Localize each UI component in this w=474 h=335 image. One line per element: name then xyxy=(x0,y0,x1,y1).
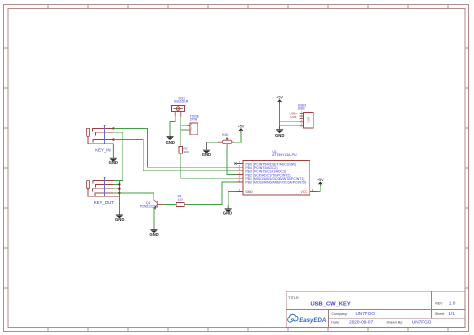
svg-text:USB-: USB- xyxy=(290,115,297,119)
wire +5V down to USB pin xyxy=(280,104,300,126)
svg-text:KEY_IN: KEY_IN xyxy=(95,148,110,153)
wire buzzer left pin to ground xyxy=(170,116,175,133)
KEY_OUT contact arm 2 xyxy=(96,184,114,187)
connector KEY_IN jack barrel xyxy=(87,128,90,136)
ground under Q1 xyxy=(149,226,158,237)
svg-text:Sheet:: Sheet: xyxy=(435,312,445,316)
wire KEY_IN arm3 to U1 PB3 xyxy=(114,140,237,171)
wire branch to TONE pin2 xyxy=(181,129,188,131)
U1 no-connect cross on PB5 xyxy=(234,162,236,164)
KEY_OUT plug line (blue) xyxy=(103,177,105,196)
svg-text:H1K: H1K xyxy=(222,133,229,137)
svg-text:PB0 (MOSI/AIN0/AREF/OC0A/PCINT: PB0 (MOSI/AIN0/AREF/OC0A/PCINT0) xyxy=(245,181,306,185)
KEY_OUT contact arm 4 xyxy=(95,193,114,196)
KEY_IN contact arm 3 xyxy=(93,140,114,143)
ground under U1 xyxy=(223,205,232,215)
USB pin net labels xyxy=(289,112,297,119)
svg-text:USB: USB xyxy=(298,107,306,111)
svg-text:2020-09-07: 2020-09-07 xyxy=(349,320,373,325)
svg-text:GND: GND xyxy=(149,232,158,237)
svg-text:ATTINY13A-PU: ATTINY13A-PU xyxy=(272,153,297,157)
svg-text:+5V: +5V xyxy=(276,96,283,100)
svg-text:EasyEDA: EasyEDA xyxy=(299,317,326,324)
svg-text:USB: USB xyxy=(306,117,310,123)
KEY_IN plug line (blue) xyxy=(103,125,105,144)
wire USB ground pin xyxy=(280,126,300,129)
svg-text:1/1: 1/1 xyxy=(448,311,455,316)
junction dot KEY_IN tip xyxy=(112,127,114,129)
svg-text:GND: GND xyxy=(202,152,211,157)
wire buzzer right pin down to R2 xyxy=(180,117,182,147)
svg-text:Company:: Company: xyxy=(331,312,347,316)
wire KEY_IN ring down to KEY_OUT chain xyxy=(114,132,123,180)
svg-text:100: 100 xyxy=(184,150,189,154)
svg-text:Drawn By:: Drawn By: xyxy=(387,321,404,325)
KEY_IN sleeve to ground xyxy=(88,137,113,144)
ground under buzzer xyxy=(166,133,175,145)
resistor R1 xyxy=(176,203,187,207)
wire pot left to ground xyxy=(207,141,218,143)
svg-text:VCC: VCC xyxy=(301,190,309,194)
wire Q1 base to R1 xyxy=(163,204,176,206)
wire KEY_OUT arms to chain xyxy=(114,181,123,193)
wire U1 GND to ground xyxy=(228,192,236,206)
IC U1 body xyxy=(243,161,310,195)
ground under KEY_IN xyxy=(109,144,118,165)
svg-text:GND: GND xyxy=(115,217,124,222)
USB pin numbers xyxy=(301,111,303,126)
wire KEY_OUT to Q1 collector xyxy=(119,193,153,200)
junction dot KEY_OUT 1 xyxy=(118,183,120,185)
svg-text:510: 510 xyxy=(178,198,183,202)
svg-text:USB_CW_KEY: USB_CW_KEY xyxy=(311,301,351,307)
junction dot KEY_OUT 3 xyxy=(118,192,120,194)
wire pot wiper to U1 PB2 xyxy=(227,148,236,175)
ground under USB xyxy=(275,126,284,138)
svg-text:GND: GND xyxy=(245,190,253,194)
potentiometer H1K xyxy=(218,138,234,148)
svg-text:UN7FGO: UN7FGO xyxy=(356,311,376,316)
svg-text:KEY_OUT: KEY_OUT xyxy=(94,200,114,205)
wire R1 to U1 PB0 xyxy=(187,182,237,205)
svg-text:GND: GND xyxy=(223,211,232,216)
resistor R2 xyxy=(179,146,183,153)
svg-text:2PIN: 2PIN xyxy=(190,118,198,122)
wire branch to TONE pin1 xyxy=(181,124,188,126)
title block xyxy=(286,291,465,327)
svg-text:TITLE:: TITLE: xyxy=(288,296,299,300)
svg-text:UN7FGO: UN7FGO xyxy=(412,320,432,325)
svg-text:1.0: 1.0 xyxy=(449,300,456,305)
KEY_OUT contact arm 3 xyxy=(92,189,113,192)
transistor Q1 xyxy=(154,200,163,209)
svg-text:+5V: +5V xyxy=(238,124,245,128)
connector TONE 2PIN xyxy=(187,123,198,135)
svg-text:BUZZER: BUZZER xyxy=(174,100,188,104)
wire R2 to U1 PB1 xyxy=(181,153,237,178)
ground under pot xyxy=(202,142,211,157)
U1 pin names xyxy=(245,162,306,184)
svg-text:GND: GND xyxy=(109,160,118,165)
power flag +5V (VCC) xyxy=(317,178,324,187)
KEY_OUT sleeve xyxy=(88,188,119,197)
junction dot KEY_IN arm3 xyxy=(112,138,114,140)
ground under KEY_OUT xyxy=(115,211,124,222)
connector USB1 xyxy=(300,112,314,128)
U1 pin numbers xyxy=(239,161,314,192)
buzzer SG1 xyxy=(171,106,186,117)
svg-text:Date:: Date: xyxy=(331,321,340,325)
title block text xyxy=(288,296,445,325)
wire pot right to +5V xyxy=(234,133,241,143)
svg-text:REV: REV xyxy=(435,301,443,305)
wire Q1 emitter to ground xyxy=(153,208,155,226)
junction dot KEY_OUT 2 xyxy=(118,188,120,190)
wire KEY_OUT chain vertical xyxy=(118,181,120,211)
svg-text:+5V: +5V xyxy=(317,178,324,182)
U1 pin stubs left xyxy=(236,164,316,192)
power flag +5V (pot) xyxy=(238,124,245,133)
KEY_IN contact arm 1 (tip) xyxy=(93,128,114,131)
EasyEDA logo xyxy=(288,314,327,323)
wire U1 VCC to +5V xyxy=(317,186,321,192)
wire KEY_IN tip to U1 PB4 xyxy=(114,128,237,167)
TONE pin numbers xyxy=(191,123,193,131)
connector KEY_OUT jack barrel xyxy=(87,181,90,189)
KEY_OUT contact arm 1 (tip) xyxy=(93,181,114,184)
power flag +5V (USB) xyxy=(276,96,283,104)
svg-text:GND: GND xyxy=(166,140,175,145)
svg-text:GND: GND xyxy=(275,133,284,138)
KEY_IN contact arm 2 (ring) xyxy=(96,132,114,135)
